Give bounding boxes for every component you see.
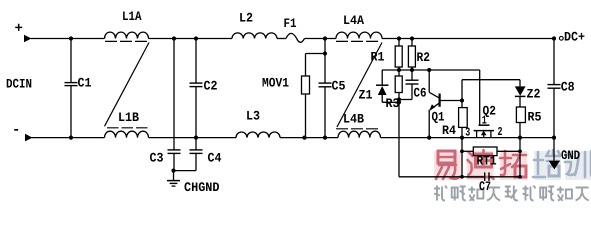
- capacitor C1: [65, 39, 92, 138]
- capacitor C4: [190, 138, 222, 171]
- inductor L3: [236, 109, 280, 138]
- transistor Q1: [429, 70, 462, 138]
- resistor R4: [442, 101, 467, 139]
- svg-text:CHGND: CHGND: [184, 180, 220, 195]
- svg-text:GND: GND: [561, 148, 580, 163]
- wire RT1 rail left: [461, 138, 463, 177]
- wire RT1 upper rail: [462, 150, 520, 152]
- junction R2 bus: [410, 68, 414, 72]
- svg-text:L1A: L1A: [122, 9, 142, 24]
- junction C5 top: [323, 36, 327, 40]
- capacitor C6: [399, 70, 427, 101]
- resistor R5: [516, 107, 541, 177]
- svg-text:L4A: L4A: [343, 13, 364, 28]
- svg-text:+: +: [15, 21, 23, 37]
- junction MOV/C5 tap: [323, 51, 327, 55]
- wire C3/C4 common to ground: [174, 171, 197, 181]
- svg-text:C8: C8: [561, 80, 575, 95]
- svg-text:C4: C4: [208, 151, 222, 166]
- junction C1 top: [69, 36, 73, 40]
- wire base-to-Z2 link: [462, 79, 520, 81]
- junction C2 top: [194, 36, 198, 40]
- capacitor C2: [190, 39, 218, 138]
- varistor MOV1: [262, 76, 310, 138]
- svg-text:Z2: Z2: [527, 87, 541, 102]
- svg-text:C5: C5: [332, 79, 346, 94]
- transistor Q2: [474, 104, 497, 138]
- svg-text:R4: R4: [442, 123, 456, 138]
- core bar L1B: [107, 127, 149, 129]
- junction R1 bus: [397, 68, 401, 72]
- svg-text:F1: F1: [284, 16, 297, 31]
- svg-text:R5: R5: [528, 110, 542, 125]
- pin 1 label Q2 gate: [482, 114, 487, 128]
- terminal GND arrow: [549, 138, 560, 170]
- core link L4: [337, 43, 382, 128]
- inductor L2: [232, 11, 277, 39]
- wire Q2 gate lead: [479, 70, 481, 125]
- core bar L1A: [105, 40, 148, 42]
- label CHGND: [184, 180, 220, 195]
- fuse F1: [284, 16, 305, 42]
- wire bottom rail (DC- line): [32, 137, 555, 139]
- svg-text:DCIN: DCIN: [6, 77, 32, 92]
- resistor R3: [386, 70, 403, 177]
- junction MOV1 bottom: [302, 136, 306, 140]
- core bar L4B: [336, 128, 381, 130]
- svg-text:-: -: [12, 123, 20, 139]
- junction Q1 collector at bus: [427, 68, 431, 72]
- junction C6/R3 node: [397, 97, 401, 101]
- svg-text:C3: C3: [150, 151, 164, 166]
- junction Q1 base node: [460, 98, 464, 102]
- junction Q1 emitter at bottom rail: [427, 136, 431, 140]
- svg-text:3: 3: [465, 126, 470, 140]
- junction C3 branch top: [172, 36, 176, 40]
- terminal DC+: [559, 30, 585, 45]
- zener Z2: [515, 80, 541, 107]
- terminal DCIN - arrow: [12, 123, 33, 142]
- capacitor C5: [319, 39, 346, 138]
- inductor L1B: [105, 110, 149, 138]
- terminal DCIN + arrow: [15, 21, 32, 42]
- svg-text:DC+: DC+: [564, 30, 585, 45]
- junction R4 bottom: [460, 136, 464, 140]
- junction C7 rail left: [460, 175, 464, 179]
- capacitor C3: [150, 150, 181, 171]
- wire C7 lower rail: [399, 176, 520, 178]
- watermark 易迪拓培训: [434, 150, 591, 201]
- junction C8 top: [552, 36, 556, 40]
- label DCIN: [6, 77, 32, 92]
- junction RT1 rail right: [518, 149, 522, 153]
- svg-text:C6: C6: [414, 86, 427, 101]
- junction Z1/R3 node: [397, 100, 401, 104]
- svg-text:R2: R2: [417, 50, 431, 65]
- svg-text:C7: C7: [479, 179, 491, 194]
- resistor R2: [408, 39, 430, 71]
- pin 2 label Q2 drain: [498, 125, 503, 139]
- wire MOV1 branch: [306, 54, 326, 77]
- junction R5 bottom rail: [518, 136, 522, 140]
- pin 3 label Q2 source: [465, 126, 470, 140]
- svg-text:L4B: L4B: [343, 112, 364, 127]
- svg-text:Z1: Z1: [359, 88, 373, 103]
- junction R2 top: [410, 36, 414, 40]
- junction C3/C4 ground node: [171, 169, 175, 173]
- capacitor C8: [548, 39, 575, 138]
- junction C7 rail right: [518, 175, 522, 179]
- svg-text:L2: L2: [239, 11, 253, 26]
- inductor L1A: [105, 9, 149, 39]
- svg-text:2: 2: [498, 125, 503, 139]
- junction C5 bottom: [323, 136, 327, 140]
- inductor L4B: [338, 112, 380, 138]
- core bar L4A: [336, 40, 381, 42]
- zener Z1: [359, 70, 400, 103]
- inductor L4A: [336, 13, 382, 39]
- svg-text:1: 1: [482, 114, 487, 128]
- junction RT1 rail left: [460, 149, 464, 153]
- svg-text:C1: C1: [78, 76, 92, 91]
- resistor R1: [371, 39, 403, 71]
- svg-text:L1B: L1B: [118, 110, 139, 125]
- capacitor C7: [479, 172, 491, 194]
- svg-text:L3: L3: [246, 109, 260, 124]
- core link L1: [105, 43, 150, 127]
- junction R1 top: [397, 36, 401, 40]
- svg-text:C2: C2: [204, 79, 218, 94]
- wire C3 branch from top rail: [173, 39, 175, 150]
- thermistor RT1: [473, 147, 497, 169]
- junction C8 bottom: [552, 136, 556, 140]
- ground CHGND symbol: [167, 181, 180, 187]
- svg-text:RT1: RT1: [477, 154, 497, 169]
- wire gate bus: [382, 69, 480, 71]
- junction C1 bottom: [69, 136, 73, 140]
- wire Q1 base node riser: [461, 80, 463, 101]
- svg-text:MOV1: MOV1: [262, 76, 289, 91]
- svg-text:R1: R1: [371, 50, 385, 65]
- wire top rail (DC+ line): [31, 38, 554, 40]
- junction C2 bottom: [194, 136, 198, 140]
- label GND: [561, 148, 580, 163]
